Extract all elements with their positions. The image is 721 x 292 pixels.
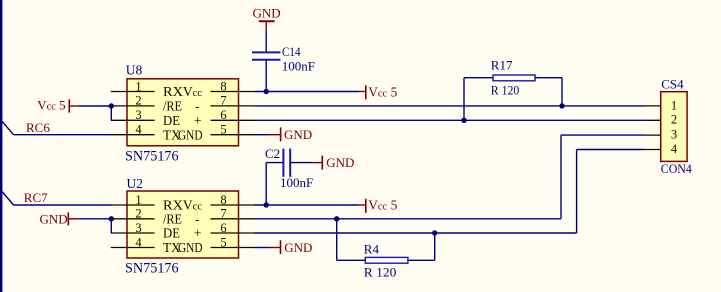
U8 pin 5 (GND) xyxy=(178,123,254,143)
svg-text:/RE: /RE xyxy=(163,212,182,227)
svg-text:6: 6 xyxy=(220,221,226,235)
svg-text:2: 2 xyxy=(671,113,677,127)
wire U8 pin 7 to CS4 pin 1 xyxy=(254,105,645,107)
wire Vcc5 to U8 pin 2 xyxy=(79,105,111,107)
junction node R17 right lead on pin7 net xyxy=(559,103,564,108)
svg-text:1: 1 xyxy=(671,98,677,112)
svg-text:R4: R4 xyxy=(364,241,380,256)
junction node R17 left lead on pin6 net xyxy=(461,118,466,123)
svg-text:+: + xyxy=(194,113,202,128)
svg-text:R 120: R 120 xyxy=(491,83,520,98)
svg-text:RC7: RC7 xyxy=(24,190,48,205)
svg-text:GND: GND xyxy=(326,155,354,170)
wire U8 pin 8 to Vcc 5 tick xyxy=(254,91,359,93)
svg-text:U8: U8 xyxy=(126,63,143,78)
wire C14 bottom plate to Vcc net xyxy=(265,60,267,92)
wire U2 pin 6 net to CS4 pin4 vertical xyxy=(254,232,577,234)
U2 pin 2 (/RE) xyxy=(111,207,182,227)
svg-text:4: 4 xyxy=(671,142,678,156)
IC U8 SN75176 body xyxy=(127,79,239,146)
svg-text:R17: R17 xyxy=(491,58,513,73)
svg-text:-: - xyxy=(195,99,200,114)
U2 pin 5 (GND) xyxy=(178,235,254,255)
wire U2 pin 7 net to CS4 pin3 vertical xyxy=(254,218,561,220)
CS4 pin 2 xyxy=(645,113,677,127)
net label Vcc 5 (right of U8) xyxy=(359,84,398,99)
svg-text:1: 1 xyxy=(135,79,141,93)
svg-text:100nF: 100nF xyxy=(282,59,315,74)
U8 pin 3 (DE) xyxy=(111,108,180,128)
net label GND (left of U2) xyxy=(40,211,80,226)
wire U2 pin 8 to Vcc 5 tick xyxy=(254,204,359,206)
capacitor C2 xyxy=(283,149,290,177)
wire U8 pin 5 to GND tick xyxy=(254,134,269,136)
wire vertical CS4 pin3 down to U2 pin7 net xyxy=(560,135,562,219)
svg-text:8: 8 xyxy=(220,193,226,207)
svg-text:RX: RX xyxy=(163,198,183,213)
svg-text:3: 3 xyxy=(671,128,677,142)
wire RC6 to U8 pin 4 xyxy=(14,134,112,136)
U2 pin 4 (TX) xyxy=(111,235,181,255)
wire C2 right plate to GND tick xyxy=(290,162,313,164)
svg-text:DE: DE xyxy=(163,113,180,128)
U2 pin 1 (RX) xyxy=(111,193,183,213)
svg-text:6: 6 xyxy=(220,108,226,122)
resistor R4 xyxy=(337,219,435,263)
svg-text:GND: GND xyxy=(284,127,312,142)
U8 pin 1 (RX) xyxy=(111,79,183,99)
U2 pin 3 (DE) xyxy=(111,221,180,241)
svg-text:C2: C2 xyxy=(265,146,280,161)
svg-text:CS4: CS4 xyxy=(661,77,684,92)
net label Vcc 5 (right of U2) xyxy=(359,198,398,213)
CS4 pin 1 xyxy=(645,98,677,112)
U8 pin 2 (/RE) xyxy=(111,94,182,114)
wire GND stub to C14 top plate xyxy=(265,32,267,53)
wire U8 pin 6 to CS4 pin 2 xyxy=(254,119,645,121)
svg-text:CON4: CON4 xyxy=(661,161,692,176)
U2 pin 8 (Vcc) xyxy=(183,193,254,213)
CS4 pin 3 xyxy=(645,128,677,142)
connector CS4 body xyxy=(661,92,687,162)
net label Vcc 5 (left of U8) xyxy=(37,97,79,112)
svg-text:3: 3 xyxy=(135,221,141,235)
junction node C14 / U8 pin 8 xyxy=(264,89,269,94)
CS4 pin 4 xyxy=(645,142,678,156)
svg-text:GND: GND xyxy=(284,240,312,255)
resistor R17 xyxy=(464,75,562,120)
U8 pin 6 (+) xyxy=(194,108,254,128)
svg-text:4: 4 xyxy=(135,235,142,249)
wire junction down to U8 pin 3 xyxy=(110,106,112,120)
svg-text:2: 2 xyxy=(135,207,141,221)
U8 pin 7 (-) xyxy=(195,94,254,114)
wire RC7 diagonal from sheet border xyxy=(2,192,14,206)
IC U2 SN75176 body xyxy=(127,191,239,258)
U8 pin 8 (Vcc) xyxy=(183,79,254,99)
svg-text:4: 4 xyxy=(135,123,142,137)
wire RC6 diagonal from sheet border xyxy=(2,121,14,135)
wire C2 left plate corner down to U2 pin8 net xyxy=(265,163,267,205)
svg-text:R 120: R 120 xyxy=(364,264,397,279)
junction node C2 / U2 pin 8 xyxy=(264,202,269,207)
junction node Vcc5 / pins 2,3 of U8 xyxy=(109,103,114,108)
sheet left border xyxy=(0,0,2,292)
svg-text:1: 1 xyxy=(135,193,141,207)
U8 pin 4 (TX) xyxy=(111,123,181,143)
net label GND (U2 pin 5) xyxy=(269,240,312,255)
wire RC7 to U2 pin 1 xyxy=(14,204,112,206)
U2 pin 7 (-) xyxy=(195,207,254,227)
svg-text:GND: GND xyxy=(178,127,203,142)
wire corner to C2 left plate xyxy=(266,162,283,164)
wire vertical CS4 pin4 down to U2 pin6 net xyxy=(576,150,578,234)
svg-text:5: 5 xyxy=(220,235,226,249)
wire GND to U2 pin 2 xyxy=(79,218,111,220)
U2 pin 6 (+) xyxy=(194,221,254,241)
svg-text:U2: U2 xyxy=(127,176,144,191)
net label GND (U8 pin 5) xyxy=(269,127,312,142)
junction node R4 right lead on U2 pin6 net xyxy=(432,230,437,235)
svg-text:DE: DE xyxy=(163,226,180,241)
junction node GND / pins 2,3 of U2 xyxy=(109,216,114,221)
svg-text:+: + xyxy=(194,226,202,241)
svg-text:7: 7 xyxy=(220,94,226,108)
wire CS4 pin 4 to vertical xyxy=(577,149,645,151)
svg-text:5: 5 xyxy=(220,123,226,137)
svg-text:SN75176: SN75176 xyxy=(125,148,179,164)
svg-text:100nF: 100nF xyxy=(280,175,313,190)
svg-text:GND: GND xyxy=(40,211,68,226)
svg-text:RX: RX xyxy=(163,84,183,99)
power port GND (top, above C14) xyxy=(253,5,281,31)
svg-text:3: 3 xyxy=(135,108,141,122)
capacitor C14 xyxy=(252,52,280,59)
svg-text:SN75176: SN75176 xyxy=(125,261,179,277)
wire junction down to U2 pin 3 xyxy=(110,219,112,233)
svg-text:/RE: /RE xyxy=(163,99,182,114)
wire U2 pin 5 to GND tick xyxy=(254,247,269,249)
svg-text:8: 8 xyxy=(220,79,226,93)
junction node R4 left lead on U2 pin7 net xyxy=(334,216,339,221)
svg-text:2: 2 xyxy=(135,94,141,108)
svg-text:GND: GND xyxy=(178,240,203,255)
svg-text:RC6: RC6 xyxy=(26,120,50,135)
svg-text:7: 7 xyxy=(220,207,226,221)
svg-text:GND: GND xyxy=(253,5,281,20)
net label GND (C2) xyxy=(313,155,354,170)
svg-text:-: - xyxy=(195,212,200,227)
wire CS4 pin 3 to vertical xyxy=(561,134,645,136)
svg-text:C14: C14 xyxy=(282,44,301,59)
